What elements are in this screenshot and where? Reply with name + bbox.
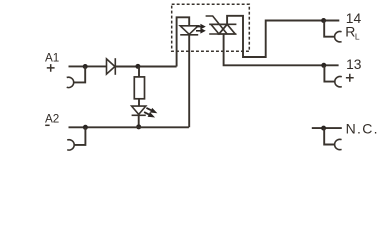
load label RL bbox=[345, 23, 360, 41]
terminal label 14 bbox=[346, 11, 362, 26]
svg-text:13: 13 bbox=[346, 57, 362, 72]
node N.C. dot bbox=[321, 126, 326, 131]
LED indicator bbox=[132, 106, 146, 115]
wire A2 horizontal bbox=[69, 126, 189, 128]
terminal contact arc 14 bbox=[335, 32, 342, 42]
diode D1 bbox=[107, 58, 116, 75]
wire N.C. terminal hook bbox=[324, 128, 335, 144]
node A1 junction dot bbox=[83, 64, 88, 69]
minus sign under A2 bbox=[45, 124, 49, 126]
terminal label 13 bbox=[346, 57, 362, 72]
phototriac Q1 bbox=[206, 16, 237, 34]
svg-text:A2: A2 bbox=[45, 113, 59, 126]
triac right triangle bbox=[219, 24, 235, 34]
svg-text:L: L bbox=[355, 31, 360, 41]
node LED on A2 rail bbox=[136, 124, 141, 129]
node junction after diode bbox=[135, 64, 140, 69]
terminal contact arc A1 bbox=[67, 77, 74, 87]
svg-text:A1: A1 bbox=[45, 52, 59, 65]
wire diode to node bbox=[115, 66, 176, 68]
plus sign under A1 bbox=[47, 64, 55, 72]
light arrows to triac bbox=[196, 24, 206, 34]
terminal contact arc 13 bbox=[335, 77, 342, 87]
wire N.C. stub bbox=[312, 127, 342, 129]
opto LED bbox=[180, 26, 198, 35]
triac top rail bbox=[209, 23, 236, 25]
wire triac MT2 to terminal 14 bbox=[227, 16, 339, 57]
terminal label A2 bbox=[45, 113, 59, 126]
terminal label N.C. bbox=[346, 120, 379, 136]
wire A1 terminal hook bbox=[74, 67, 86, 83]
resistor R1 bbox=[134, 77, 144, 99]
triac gate lead bbox=[206, 16, 228, 34]
triac bottom rail bbox=[209, 33, 236, 35]
node terminal 14 dot bbox=[321, 18, 326, 23]
triac left triangle bbox=[211, 24, 227, 34]
wire node down to resistor bbox=[138, 66, 140, 77]
wire A1 horizontal bbox=[69, 65, 107, 67]
optocoupler box U1 (dashed) bbox=[172, 4, 250, 51]
wire opto LED cathode down to A2 rail bbox=[188, 35, 190, 128]
wire 14 terminal hook bbox=[324, 21, 335, 37]
node terminal 13 dot bbox=[321, 63, 326, 68]
wire 13 terminal hook bbox=[324, 65, 335, 81]
wire resistor to LED bbox=[138, 99, 140, 106]
plus sign under 13 bbox=[346, 74, 354, 82]
wire opto LED anode path bbox=[177, 17, 190, 66]
terminal label A1 bbox=[45, 52, 59, 65]
node A2 junction dot bbox=[83, 125, 88, 130]
wire A2 terminal hook bbox=[74, 127, 85, 145]
wire LED to A2 rail bbox=[138, 115, 140, 126]
wire triac MT1 to terminal 13 bbox=[224, 34, 339, 65]
svg-text:N.C.: N.C. bbox=[346, 120, 379, 136]
LED emission arrows bbox=[144, 107, 158, 117]
terminal contact arc A2 bbox=[67, 140, 74, 150]
terminal contact arc N.C. bbox=[335, 139, 342, 149]
